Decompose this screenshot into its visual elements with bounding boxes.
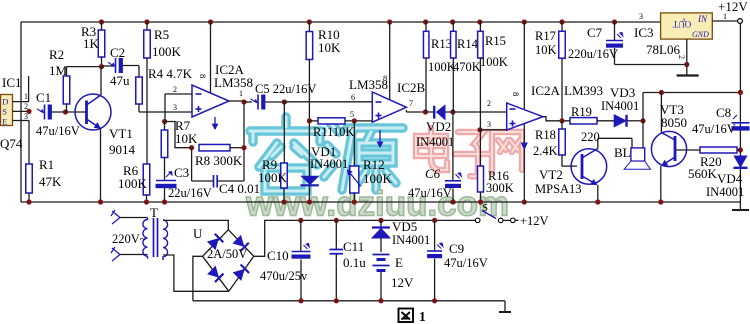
capacitor C10 470u/25v xyxy=(298,218,303,223)
resistor R13 100K xyxy=(423,19,428,24)
resistor R17 10K xyxy=(559,19,564,24)
switch S xyxy=(475,218,480,223)
svg-text:GND: GND xyxy=(692,30,709,39)
svg-text:300K: 300K xyxy=(486,181,514,195)
wire C1 to VT1 base xyxy=(52,111,87,113)
svg-text:OUT: OUT xyxy=(672,19,691,29)
svg-text:1: 1 xyxy=(239,89,243,98)
capacitor C11 0.1u xyxy=(334,218,339,223)
svg-text:T: T xyxy=(150,205,158,220)
svg-text:IN4001: IN4001 xyxy=(416,135,454,149)
svg-text:1: 1 xyxy=(419,309,426,324)
IC1 pin 1 (D) wire xyxy=(13,101,30,103)
svg-text:2.4K: 2.4K xyxy=(533,144,558,158)
resistor R3 1K xyxy=(99,19,104,24)
svg-text:2: 2 xyxy=(487,99,491,108)
svg-text:C5 22u/16V: C5 22u/16V xyxy=(255,82,316,96)
transformer T secondary winding xyxy=(163,220,168,260)
svg-text:IC3: IC3 xyxy=(634,25,654,40)
svg-text:47u/16V: 47u/16V xyxy=(444,256,488,270)
ground stub at right end of bottom rail xyxy=(739,202,741,210)
svg-text:2: 2 xyxy=(677,55,686,59)
svg-text:C3: C3 xyxy=(174,165,189,180)
wire secondary top to bridge xyxy=(163,220,228,229)
svg-text:8: 8 xyxy=(383,73,387,83)
svg-text:R2: R2 xyxy=(49,47,64,62)
wire mains to transformer xyxy=(120,217,148,219)
resistor R7 10K xyxy=(164,122,166,131)
mains input terminal top xyxy=(112,211,120,218)
resistor R14 470K xyxy=(450,19,455,24)
svg-text:C11: C11 xyxy=(343,239,364,254)
svg-text:1K: 1K xyxy=(83,36,100,51)
wire VT2 collector to speaker xyxy=(598,137,632,139)
wire R7-node stub to R8 xyxy=(165,122,192,148)
svg-text:VT1: VT1 xyxy=(109,126,133,141)
svg-text:+12V: +12V xyxy=(520,214,549,228)
svg-text:R1: R1 xyxy=(39,157,54,172)
svg-text:IN: IN xyxy=(697,14,708,24)
node speaker drive junction xyxy=(640,118,645,123)
wire pin3 down to R1 xyxy=(28,121,30,165)
resistor R11 10K xyxy=(309,120,318,122)
capacitor C4 0.01 xyxy=(213,175,215,188)
bridge diode top-left xyxy=(208,239,218,249)
resistor R6 100K xyxy=(143,164,150,195)
LM393 ground wire pin4 xyxy=(523,124,525,202)
svg-text:R14: R14 xyxy=(457,37,479,51)
potentiometer R12 100K xyxy=(353,121,355,166)
svg-text:220: 220 xyxy=(581,130,600,144)
mains input terminal bottom xyxy=(112,248,120,255)
svg-text:VD2: VD2 xyxy=(426,119,451,134)
svg-text:IC2B: IC2B xyxy=(397,80,426,95)
capacitor C2 47u xyxy=(102,65,115,67)
resistor R19 220 xyxy=(570,118,597,124)
wire IC3 GND pin xyxy=(686,39,688,75)
svg-text:5: 5 xyxy=(350,110,354,119)
svg-text:8: 8 xyxy=(198,74,208,78)
wire R2 top to collector node xyxy=(67,66,102,68)
svg-text:IN4001: IN4001 xyxy=(601,99,639,113)
svg-text:IN4001: IN4001 xyxy=(310,157,348,171)
svg-text:VD3: VD3 xyxy=(610,85,635,100)
svg-text:C7: C7 xyxy=(587,25,603,40)
resistor R10 10K xyxy=(307,19,312,24)
svg-text:78L06: 78L06 xyxy=(646,42,680,57)
svg-text:2A/50V: 2A/50V xyxy=(207,247,247,261)
svg-text:C4 0.01: C4 0.01 xyxy=(219,181,260,196)
wire secondary bottom to bridge xyxy=(163,255,229,291)
bridge diode bottom-right xyxy=(234,270,244,280)
svg-text:100K: 100K xyxy=(480,55,508,69)
svg-text:MPSA13: MPSA13 xyxy=(535,182,582,196)
battery E 12V xyxy=(373,254,390,256)
svg-text:R17: R17 xyxy=(535,29,556,43)
svg-text:C2: C2 xyxy=(110,45,125,60)
node R17/R18 junction xyxy=(559,118,564,123)
power ground rail xyxy=(193,300,505,302)
diode VD5 IN4001 xyxy=(378,218,383,223)
svg-text:R15: R15 xyxy=(485,34,506,48)
capacitor C5 22u/16V xyxy=(244,101,252,103)
svg-text:10K: 10K xyxy=(175,131,198,146)
resistor R20 560K xyxy=(700,147,737,153)
transistor VT2 MPSA13 xyxy=(571,149,607,185)
wire bridge minus to ground rail xyxy=(193,256,203,301)
svg-text:D: D xyxy=(2,97,8,107)
svg-text:E: E xyxy=(395,255,403,270)
svg-text:10K: 10K xyxy=(535,43,557,57)
node IC2A output xyxy=(229,100,244,102)
capacitor C3 22u/16V xyxy=(156,180,176,182)
svg-text:LM393: LM393 xyxy=(564,83,603,98)
svg-text:3: 3 xyxy=(639,12,643,21)
resistor R5 100K xyxy=(144,19,149,24)
resistor R1 47K xyxy=(26,164,33,193)
svg-text:47u/16V: 47u/16V xyxy=(36,124,80,138)
IC1 gas sensor box Q74 xyxy=(1,95,13,126)
svg-text:470u/25v: 470u/25v xyxy=(260,269,308,283)
resistor R4 4.7K xyxy=(138,66,140,78)
svg-text:IC1: IC1 xyxy=(2,75,22,90)
svg-text:E: E xyxy=(2,116,7,126)
svg-text:8050: 8050 xyxy=(661,115,687,130)
wire IC2B power xyxy=(387,19,392,24)
svg-text:C8: C8 xyxy=(716,105,731,120)
watermark 电子网 (pink) xyxy=(416,128,522,177)
wire top +12V link xyxy=(643,92,740,94)
svg-text:47K: 47K xyxy=(39,174,62,189)
resistor R9 100K xyxy=(283,102,285,163)
svg-text:560K: 560K xyxy=(688,166,718,181)
svg-text:1: 1 xyxy=(24,92,28,101)
svg-text:IC2A: IC2A xyxy=(531,83,561,98)
svg-text:R8 300K: R8 300K xyxy=(195,153,243,168)
transformer T core xyxy=(153,218,155,257)
svg-text:C9: C9 xyxy=(449,241,464,256)
diode VD1 IN4001 xyxy=(302,176,319,184)
wire left border vertical xyxy=(20,22,22,202)
comparator IC2A LM393 xyxy=(507,103,543,130)
svg-text:C6: C6 xyxy=(425,166,441,181)
node R12 top junction xyxy=(352,118,357,123)
svg-text:R1110K: R1110K xyxy=(313,125,354,139)
resistor R18 2.4K xyxy=(561,121,563,129)
svg-text:1M: 1M xyxy=(49,63,68,78)
wire VT3 base to R20 xyxy=(676,149,700,151)
IC2B ground arrow xyxy=(379,130,381,147)
caption 图1 xyxy=(399,309,414,323)
svg-text:100K: 100K xyxy=(258,170,288,185)
capacitor C6 47u/16V xyxy=(452,112,454,180)
node R2 bottom junction xyxy=(63,109,68,114)
svg-text:47u: 47u xyxy=(110,73,130,88)
diode VD4 IN4001 xyxy=(734,156,747,167)
node R8 left junction xyxy=(189,145,194,150)
transformer T primary winding xyxy=(143,218,148,259)
svg-text:100K: 100K xyxy=(118,176,148,191)
svg-text:+12V: +12V xyxy=(718,0,748,14)
svg-text:22u/16V: 22u/16V xyxy=(168,186,212,200)
node VD2 cathode junction / R14 / C6 xyxy=(450,109,455,114)
svg-text:9014: 9014 xyxy=(109,142,136,157)
wire LM393 power pin8 xyxy=(522,19,527,24)
wire IC3 IN to +12V terminal xyxy=(712,20,737,22)
IC2A ground arrow xyxy=(214,117,216,129)
wire R4 to op-amp pin3 xyxy=(139,111,192,113)
svg-text:IN4001: IN4001 xyxy=(706,185,744,199)
svg-text:2: 2 xyxy=(173,85,177,94)
svg-text:0.1u: 0.1u xyxy=(343,255,366,270)
svg-text:Q74: Q74 xyxy=(0,136,23,151)
wire +6V top rail xyxy=(21,21,661,23)
svg-text:220V~: 220V~ xyxy=(112,232,147,246)
svg-text:R13: R13 xyxy=(431,37,452,51)
ground symbol IC3 xyxy=(677,74,699,76)
svg-text:V: V xyxy=(681,16,686,22)
transistor VT3 8050 xyxy=(651,131,686,166)
node VD2 anode junction / R13 xyxy=(423,109,428,114)
node R11 junction xyxy=(307,118,312,123)
op-amp IC2B LM358 xyxy=(372,92,406,122)
svg-text:R4 4.7K: R4 4.7K xyxy=(148,66,193,81)
svg-text:VD5: VD5 xyxy=(392,219,417,234)
wire pin3 to comparator xyxy=(480,129,507,131)
resistor R16 300K xyxy=(479,130,481,166)
svg-text:VT2: VT2 xyxy=(539,167,563,182)
diode VD2 IN4001 xyxy=(433,106,435,119)
svg-text:47u/16V: 47u/16V xyxy=(408,186,452,200)
wire feedback vertical to output xyxy=(243,102,245,181)
bridge diode bottom-left xyxy=(208,267,218,277)
svg-text:R18: R18 xyxy=(535,128,556,142)
svg-text:S: S xyxy=(482,202,488,214)
diode VD3 IN4001 xyxy=(614,115,626,127)
svg-text:220u/16V: 220u/16V xyxy=(568,47,618,61)
watermark 容源 (cyan) xyxy=(250,117,403,191)
wire right border vertical (+12V feed) xyxy=(739,24,741,203)
speaker BL xyxy=(631,148,645,161)
wire pin2 input xyxy=(165,93,192,95)
svg-text:10K: 10K xyxy=(318,40,341,55)
wire pin2 down to R7 node xyxy=(164,94,166,122)
svg-text:100K: 100K xyxy=(428,60,456,74)
node R7 top junction xyxy=(162,119,167,124)
wire ground bottom rail xyxy=(21,201,740,203)
regulator IC3 78L06 xyxy=(661,13,713,39)
svg-text:12V: 12V xyxy=(391,275,414,290)
power ground end stub xyxy=(504,301,506,312)
IC1 pin 3 (E) wire xyxy=(13,120,30,122)
capacitor C1 47u/16V xyxy=(44,105,46,120)
svg-text:R5: R5 xyxy=(154,27,169,42)
svg-text:IN4001: IN4001 xyxy=(392,233,430,247)
node VT1 collector junction xyxy=(99,64,104,69)
node R8 right junction xyxy=(241,145,246,150)
svg-text:470K: 470K xyxy=(453,60,481,74)
wire R5 to R6 xyxy=(146,58,148,164)
wire C4 branch left xyxy=(191,148,193,181)
transistor VT1 9014 xyxy=(75,94,111,130)
node R9 top junction xyxy=(282,99,287,104)
wire LM393 output xyxy=(543,117,570,121)
svg-text:U: U xyxy=(193,226,203,241)
svg-text:3: 3 xyxy=(487,120,491,129)
wire speaker right vertical xyxy=(642,93,644,148)
capacitor C9 47u/16V xyxy=(432,218,437,223)
bridge diode top-right xyxy=(233,236,243,246)
wire bridge plus to DC rail xyxy=(254,220,476,256)
wire IC2B output xyxy=(405,110,407,112)
resistor R15 100K xyxy=(477,19,482,24)
svg-text:6: 6 xyxy=(351,93,355,102)
op-amp IC2A LM358 xyxy=(192,85,229,117)
svg-text:R19: R19 xyxy=(571,105,592,119)
IC1 pin 2 (S) wire xyxy=(13,110,30,112)
wire R10 down through pin6 crossing xyxy=(308,60,310,177)
svg-text:C1: C1 xyxy=(36,90,51,105)
svg-text:BL: BL xyxy=(614,145,631,160)
svg-text:S: S xyxy=(2,107,7,117)
svg-text:R12: R12 xyxy=(363,157,385,172)
wire R1 to ground rail xyxy=(28,193,30,202)
resistor R2 1M xyxy=(66,67,68,76)
svg-text:100K: 100K xyxy=(152,44,182,59)
svg-text:8: 8 xyxy=(511,92,521,96)
wire IC2A pin8 power xyxy=(208,19,213,24)
node LM393 pin3 junction xyxy=(477,127,482,132)
svg-text:VD4: VD4 xyxy=(717,171,743,186)
svg-text:100K: 100K xyxy=(363,171,393,186)
capacitor C7 220u/16V xyxy=(612,19,617,24)
capacitor C8 47u/16V xyxy=(732,122,750,124)
svg-text:LM358: LM358 xyxy=(214,75,253,90)
svg-text:C10: C10 xyxy=(267,248,289,263)
svg-text:47u/16V: 47u/16V xyxy=(692,122,736,136)
wire to IC2B pin6 xyxy=(284,101,372,103)
svg-text:3: 3 xyxy=(173,103,177,112)
svg-text:7: 7 xyxy=(409,99,413,108)
resistor R8 300K xyxy=(199,144,230,151)
node pin2/S junction xyxy=(26,109,31,114)
